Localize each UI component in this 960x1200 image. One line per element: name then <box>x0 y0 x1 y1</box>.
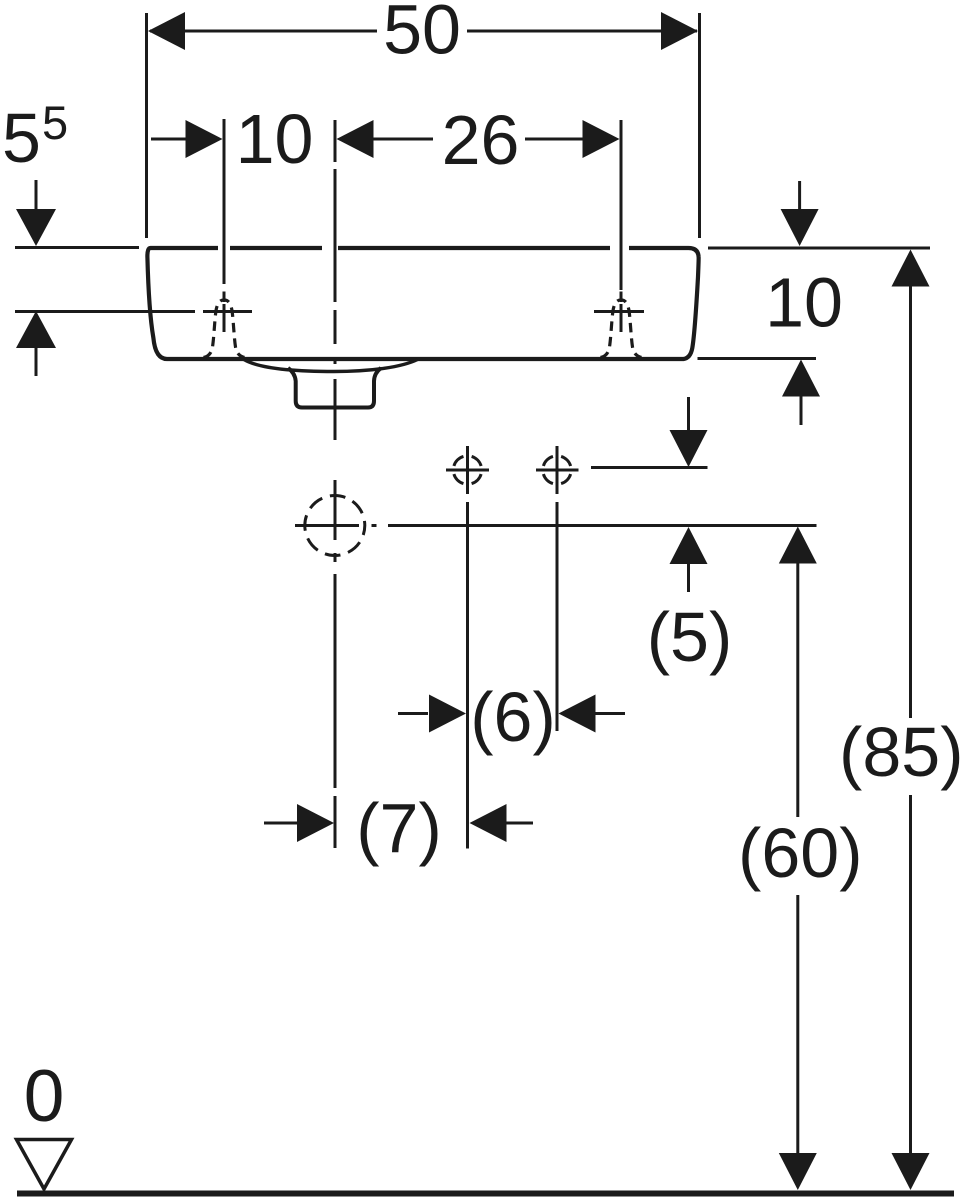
right tap centerline dashes <box>620 292 623 303</box>
tap level line left segment <box>15 310 195 313</box>
dimension 60 up arrowhead <box>779 527 817 564</box>
datum triangle <box>17 1140 72 1190</box>
rim top level line right <box>708 247 930 250</box>
dimension 6 right arrowhead <box>429 695 466 733</box>
waste outlet cross dash right <box>372 524 377 527</box>
dimension 10 right down arrow tail <box>798 181 801 211</box>
svg-text:50: 50 <box>383 0 461 69</box>
supply hole 1 cross vertical <box>466 446 469 494</box>
drain trap cup <box>288 368 381 408</box>
dimension 5.5 up arrow tail <box>35 348 38 376</box>
svg-text:(5): (5) <box>647 598 733 676</box>
right tap dashed profile <box>601 300 642 358</box>
dimension 60 upper tail <box>796 564 799 818</box>
dimension 5 up arrow tail <box>687 564 690 592</box>
main centerline below outlet <box>334 574 337 788</box>
dimension 7 left line <box>264 822 297 825</box>
dimension 26 arrowhead right <box>583 120 620 158</box>
dimension 26 arrowhead left <box>337 120 374 158</box>
supply hole 2 cross horizontal <box>536 469 579 472</box>
main centerline inside basin <box>334 310 337 344</box>
supply level line right <box>591 466 708 469</box>
dimension 50 extension line right <box>698 13 701 238</box>
dimension 6 right line <box>596 712 626 715</box>
svg-text:(85): (85) <box>839 713 960 791</box>
dimension 85 down arrowhead <box>892 1153 930 1190</box>
washbasin outline <box>147 248 698 359</box>
svg-text:(6): (6) <box>470 678 556 756</box>
floor line <box>17 1191 954 1197</box>
main centerline through drain <box>334 379 337 440</box>
tap hole 1 extension line <box>223 119 226 284</box>
dimension 7 right line <box>507 822 534 825</box>
dimension 5.5 up arrowhead <box>16 311 56 348</box>
dimension 85 upper tail <box>909 287 912 719</box>
dimension 5.5 down arrow tail <box>35 180 38 211</box>
dimension 60 lower tail <box>796 895 799 1154</box>
supply hole 1 extension line down <box>466 502 469 849</box>
main centerline dot below bowl <box>334 361 337 364</box>
dimension 10 right up arrowhead <box>782 360 820 397</box>
supply hole 2 extension line down <box>556 502 559 731</box>
dimension 6 left line <box>398 712 428 715</box>
basin bottom level line right <box>698 357 817 360</box>
left tap centerline dashes <box>223 292 226 303</box>
svg-text:(60): (60) <box>738 814 862 892</box>
svg-text:10: 10 <box>236 100 314 178</box>
supply hole 1 cross horizontal <box>446 469 489 472</box>
dimension 50 line left segment <box>150 30 377 33</box>
supply hole 2 dashed circle <box>543 456 571 484</box>
dimension 6 left arrowhead <box>559 695 596 733</box>
dimension 5.5 down arrowhead <box>16 209 56 246</box>
svg-text:10: 10 <box>765 264 843 342</box>
dimension 10 line <box>151 138 187 141</box>
svg-text:26: 26 <box>442 101 520 179</box>
dimension 50 line right segment <box>467 30 697 33</box>
rim top level line left <box>15 246 139 249</box>
dimension 7 right arrowhead <box>297 804 334 842</box>
tap level line through left tap <box>203 310 252 313</box>
waste outlet cross horizontal <box>295 524 359 527</box>
supply hole 2 cross vertical <box>556 446 559 494</box>
dimension 85 up arrowhead <box>892 250 930 287</box>
main centerline above basin <box>334 120 337 162</box>
washbasin top edge segment 3 <box>338 246 610 250</box>
dimension 85 lower tail <box>909 795 912 1154</box>
dimension 26 line right segment <box>525 138 584 141</box>
dimension 50 arrowhead left <box>148 12 185 50</box>
svg-text:(7): (7) <box>356 789 442 867</box>
dimension 5 down arrowhead <box>670 430 708 467</box>
washbasin top edge segment 2 <box>230 246 322 250</box>
main centerline through outlet circle <box>334 480 337 540</box>
dimension 10 right down arrowhead <box>781 209 819 246</box>
basin bowl underside curve <box>244 360 418 372</box>
dimension 5 down arrow tail <box>687 397 690 432</box>
right tap cross line <box>594 310 644 313</box>
dimension 50 extension line left <box>145 13 148 238</box>
dimension 50 arrowhead right <box>661 12 698 50</box>
left tap dashed profile <box>204 300 245 358</box>
dimension 10 right up arrow tail <box>800 397 803 426</box>
outlet level line <box>388 524 817 527</box>
tap hole 2 extension line <box>620 120 623 290</box>
supply hole 1 dashed circle <box>453 456 481 484</box>
svg-text:5: 5 <box>2 99 41 177</box>
dimension 26 line left segment <box>374 138 434 141</box>
waste outlet dashed circle <box>305 496 365 556</box>
dimension 7 left arrowhead <box>470 804 507 842</box>
dimension 60 down arrowhead <box>779 1153 817 1190</box>
svg-text:0: 0 <box>24 1056 65 1137</box>
svg-text:5: 5 <box>42 96 68 149</box>
dimension 5 up arrowhead <box>670 527 708 564</box>
dimension 10 arrowhead <box>186 120 223 158</box>
